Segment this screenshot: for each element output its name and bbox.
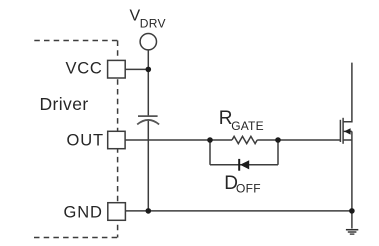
junction dot node A [207, 137, 213, 143]
wire diode branch left drop [209, 140, 211, 165]
wire MOSFET source lead down to ground [351, 131, 353, 228]
junction dot node B [275, 137, 281, 143]
svg-text:GATE: GATE [231, 119, 264, 133]
svg-text:Driver: Driver [40, 94, 89, 114]
ground symbol [346, 230, 358, 234]
wire capacitor bottom to GND rail [147, 121, 149, 211]
junction dot capacitor to GND rail [146, 208, 152, 214]
wire VDRV source to capacitor top [147, 50, 149, 116]
junction dot MOSFET source to GND rail [349, 208, 355, 214]
wire VCC pin to VDRV node [125, 68, 148, 70]
wire node A to resistor left lead [210, 139, 232, 141]
svg-text:OUT: OUT [67, 131, 105, 149]
transistor Q1 MOSFET [340, 118, 352, 144]
resistor RGATE zigzag [232, 136, 257, 143]
transistor Q1 body arrow [344, 128, 351, 134]
wire diode branch right drop [277, 140, 279, 165]
wire resistor right lead to node B [257, 139, 278, 141]
wire MOSFET drain lead [343, 63, 352, 122]
pin box GND [108, 203, 126, 221]
driver dashed box top edge [34, 40, 117, 42]
capacitor C1 [137, 116, 159, 124]
wire OUT pin to node A [125, 139, 210, 141]
driver dashed box right edge [117, 41, 119, 238]
wire node B to MOSFET gate [278, 139, 340, 141]
junction dot at VDRV/VCC node [146, 67, 152, 73]
pin box VCC [108, 60, 126, 78]
svg-text:VCC: VCC [66, 60, 103, 78]
wire diode branch horizontal [210, 164, 278, 166]
svg-text:DRV: DRV [140, 17, 166, 31]
diode DOFF [239, 159, 249, 171]
svg-text:OFF: OFF [236, 181, 261, 195]
svg-text:GND: GND [64, 203, 103, 221]
pin box OUT [108, 131, 125, 148]
voltage source VDRV circle [140, 34, 156, 50]
driver dashed box bottom edge [34, 237, 118, 239]
wire GND pin to MOSFET source [125, 210, 352, 212]
